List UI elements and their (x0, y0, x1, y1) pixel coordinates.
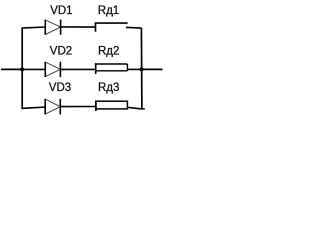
wire branch3 left (21, 107, 45, 108)
wire branch2 mid (60, 68, 95, 70)
resistor Rd1 (top edge + left edge visible) (95, 22, 128, 31)
wire right bus (140, 28, 143, 109)
svg-text:Rд1: Rд1 (98, 5, 119, 17)
output wire (142, 68, 163, 70)
wire branch3 right (127, 107, 141, 109)
wire branch1 right (126, 26, 142, 29)
wire branch1 left (21, 27, 45, 28)
wire bottom-right overshoot (142, 108, 145, 110)
node output junction (140, 67, 144, 71)
wire branch2 left (21, 68, 45, 70)
input wire (1, 68, 22, 70)
node input junction (20, 67, 24, 71)
svg-text:Rд3: Rд3 (98, 82, 119, 94)
diode VD3 (45, 99, 60, 115)
wire branch1 mid (61, 26, 96, 28)
diode VD2 (45, 62, 60, 77)
wire branch2 right (127, 68, 141, 70)
wire branch3 mid (60, 106, 96, 108)
resistor Rd2 (box, wire passes near bottom) (95, 63, 128, 74)
svg-text:VD2: VD2 (50, 46, 72, 58)
svg-text:Rд2: Rд2 (98, 46, 119, 58)
svg-text:VD1: VD1 (50, 5, 72, 17)
wire left bus (21, 28, 23, 109)
diode VD1 (45, 20, 60, 35)
resistor Rd3 (full box) (96, 101, 128, 111)
svg-text:VD3: VD3 (49, 82, 71, 94)
